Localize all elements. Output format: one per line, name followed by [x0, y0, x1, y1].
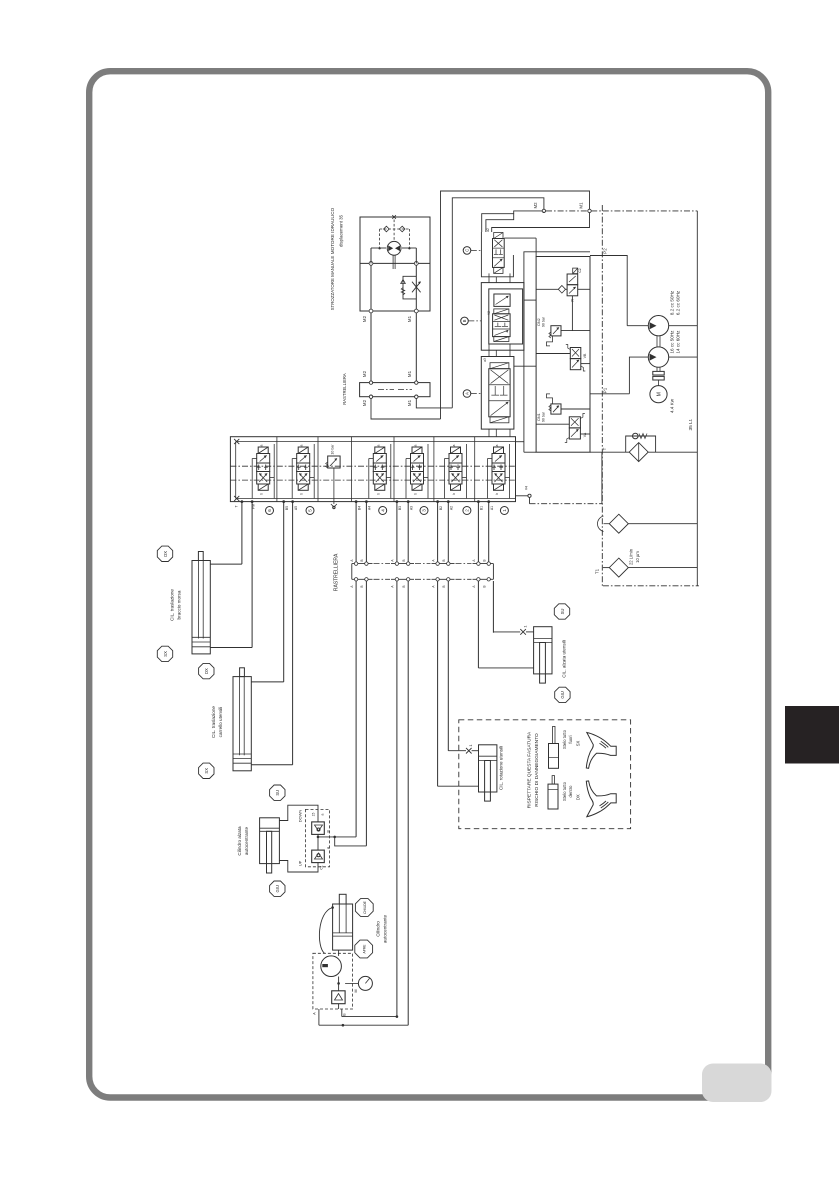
wire B5 — [292, 502, 294, 765]
circled C — [463, 247, 471, 255]
svg-text:35 Lt.: 35 Lt. — [688, 418, 694, 430]
svg-text:a: a — [495, 444, 499, 446]
svg-text:1: 1 — [502, 509, 507, 512]
relief valve DN2 — [551, 326, 561, 336]
svg-text:A1: A1 — [490, 506, 494, 510]
circled B — [461, 317, 469, 325]
claw SX — [586, 733, 616, 769]
wire A5 — [283, 502, 285, 682]
svg-text:a: a — [414, 444, 418, 446]
svg-text:10 µm: 10 µm — [635, 551, 640, 563]
svg-text:displacement 35: displacement 35 — [339, 214, 344, 247]
T riser — [601, 452, 603, 504]
svg-text:A: A — [465, 392, 470, 395]
wire v3a — [355, 502, 357, 562]
cylinder autocentrante — [333, 904, 353, 950]
wire rotazione bottom port — [438, 785, 479, 787]
section B enclosure — [481, 283, 524, 351]
svg-text:Stelo tutto: Stelo tutto — [562, 729, 567, 749]
bank gallery P dash-dot — [230, 465, 515, 467]
svg-text:B: B — [402, 585, 406, 587]
upper rastrelliera connector — [360, 383, 430, 397]
wire section C to block — [504, 237, 536, 239]
svg-text:autocentrante: autocentrante — [244, 827, 249, 856]
bank to manifold top link — [516, 441, 524, 443]
svg-text:M: M — [354, 990, 358, 993]
svg-text:DX: DX — [576, 794, 581, 800]
svg-text:8.2 cc 50Hz: 8.2 cc 50Hz — [670, 290, 675, 315]
svg-text:6: 6 — [267, 509, 272, 512]
svg-text:dentro: dentro — [568, 785, 573, 798]
svg-text:B: B — [442, 585, 446, 587]
wire c5 top port — [526, 631, 534, 633]
valve C — [494, 233, 503, 239]
curved pipe to rotary block — [319, 908, 332, 954]
cylinder rotazione utensili — [479, 745, 497, 792]
solenoid valve bank valve 3 (bank) — [369, 444, 391, 499]
svg-text:M1: M1 — [578, 202, 583, 209]
wire c1 top port — [210, 563, 242, 565]
strip contacts — [354, 562, 357, 565]
svg-text:SU: SU — [560, 609, 565, 615]
solenoid valve bank valve 5 (bank) — [445, 444, 467, 499]
wire v4b — [407, 502, 409, 562]
octagon GIU c5 — [555, 687, 570, 702]
svg-text:T1: T1 — [595, 568, 600, 574]
svg-text:Y2: Y2 — [487, 311, 491, 315]
wire rotary A to d4b — [319, 1024, 408, 1026]
svg-text:B2: B2 — [439, 506, 443, 510]
svg-text:b: b — [452, 493, 456, 495]
svg-text:SX: SX — [163, 651, 168, 657]
svg-text:RASTRELLIERA: RASTRELLIERA — [334, 553, 340, 591]
svg-text:Cilindro: Cilindro — [376, 921, 381, 937]
valve B — [494, 309, 509, 314]
octagon SX c2 — [199, 763, 214, 778]
svg-text:B: B — [462, 319, 467, 322]
svg-text:a: a — [376, 444, 380, 446]
svg-text:b: b — [495, 493, 499, 495]
page border frame — [89, 71, 768, 1097]
octagon APRE — [355, 940, 373, 958]
svg-text:10 bar: 10 bar — [331, 444, 335, 455]
svg-text:M2: M2 — [362, 315, 367, 322]
svg-text:6.2 cc 60Hz: 6.2 cc 60Hz — [676, 290, 681, 315]
svg-text:CIL. traslazione: CIL. traslazione — [170, 589, 175, 621]
octagon SX c1 — [157, 646, 172, 661]
bank closed port X top — [234, 439, 239, 444]
svg-text:B3: B3 — [398, 506, 402, 510]
svg-text:a: a — [300, 444, 304, 446]
wire loop outer (M1) — [441, 191, 590, 419]
svg-text:MOTORE IDRAULICO: MOTORE IDRAULICO — [330, 207, 335, 254]
circled A — [463, 390, 471, 398]
section C outlet wires — [488, 273, 490, 282]
dash-dot M2-M1 link — [546, 210, 588, 212]
octagon SU c5 — [554, 604, 569, 619]
hydraulic motor — [387, 241, 401, 255]
wire M2 upper — [370, 263, 372, 382]
svg-text:C: C — [465, 249, 470, 252]
wire v4a — [396, 502, 398, 562]
wire c3 bottom port — [279, 861, 318, 873]
wire rotary B to d4a — [342, 1016, 397, 1018]
bank section dividers — [276, 437, 278, 502]
svg-text:STROZZATORE MANUALE: STROZZATORE MANUALE — [330, 256, 335, 311]
svg-text:4.4 Kw: 4.4 Kw — [670, 398, 675, 413]
section A outlet wires — [488, 429, 490, 437]
wire A6 — [241, 502, 243, 564]
svg-text:DX: DX — [204, 668, 209, 674]
wire cylinder to rotary — [338, 950, 340, 956]
svg-text:P1: P1 — [603, 387, 608, 393]
stelo dentro icon — [548, 784, 558, 809]
bank T outlet — [516, 495, 529, 497]
section C enclosure — [481, 232, 513, 277]
wire block to d3a — [318, 836, 356, 838]
svg-text:SU: SU — [275, 790, 280, 796]
svg-text:M2: M2 — [533, 202, 538, 209]
svg-text:A2: A2 — [450, 506, 454, 510]
wire d3a — [355, 581, 357, 837]
octagon DX c1 — [157, 546, 172, 561]
wire P2 — [590, 256, 627, 316]
svg-text:B: B — [482, 585, 486, 587]
block internal wires — [317, 834, 319, 850]
section B outlet wires — [488, 344, 490, 357]
solenoid valve bank valve 2 (bank) — [292, 444, 314, 499]
solenoid valve bank valve 4 (bank) — [406, 444, 428, 499]
svg-text:3: 3 — [422, 509, 427, 512]
wire section A to block — [514, 365, 536, 367]
octagon GIU c3 — [270, 881, 285, 896]
svg-text:15: 15 — [312, 813, 316, 817]
svg-text:M2: M2 — [362, 370, 367, 377]
svg-text:SX: SX — [204, 768, 209, 774]
svg-text:C2: C2 — [578, 268, 582, 272]
suction strainer — [609, 514, 628, 533]
svg-text:C1: C1 — [320, 865, 324, 869]
cylinder alzata utensili — [534, 627, 552, 674]
wire v3b — [365, 502, 367, 562]
svg-text:b: b — [300, 493, 304, 495]
wire v5b — [447, 502, 449, 562]
svg-text:CIL. rotazione utensili: CIL. rotazione utensili — [499, 746, 504, 790]
electric motor M — [650, 386, 667, 403]
node M2 — [542, 209, 545, 212]
wire M1 node into section C — [492, 213, 590, 232]
svg-text:M2: M2 — [362, 399, 367, 406]
svg-text:CIL. traslazione: CIL. traslazione — [211, 706, 216, 738]
svg-text:b: b — [414, 493, 418, 495]
octagon SU c3 — [270, 785, 285, 800]
pilot diamond — [558, 286, 565, 294]
svg-text:4: 4 — [380, 509, 385, 512]
wire M2 to manifold — [371, 398, 441, 419]
rastrelliera strip — [352, 563, 494, 565]
svg-text:a2: a2 — [486, 228, 490, 232]
tank bottom dash-dot — [603, 585, 699, 587]
manifold block — [536, 257, 590, 453]
wire parallel left — [524, 252, 590, 452]
valve bank body — [230, 437, 515, 502]
vent symbol below bank — [333, 506, 335, 508]
svg-text:A4: A4 — [368, 506, 372, 510]
svg-text:2: 2 — [465, 509, 470, 512]
rotary actuator — [321, 956, 342, 977]
svg-text:M1: M1 — [407, 370, 412, 377]
wire v6b — [488, 502, 490, 562]
section A enclosure — [481, 357, 514, 430]
svg-text:M1: M1 — [407, 399, 412, 406]
svg-text:A3: A3 — [409, 506, 413, 510]
svg-text:90 bar: 90 bar — [542, 411, 546, 422]
dash-dot M1 to tank wall — [591, 210, 697, 212]
svg-text:B4: B4 — [357, 506, 361, 510]
valve B pilot element — [494, 294, 510, 306]
rotary port stubs — [318, 1009, 320, 1025]
wire c3 top port — [279, 805, 318, 822]
svg-text:b: b — [376, 493, 380, 495]
gray page tab — [702, 1064, 772, 1103]
dash-dot rail P2/P1/T — [601, 205, 603, 586]
octagon DX c2 — [199, 663, 214, 678]
svg-text:RASTRELLIERA: RASTRELLIERA — [342, 373, 347, 405]
svg-text:B5: B5 — [285, 506, 289, 510]
valve VA — [569, 417, 580, 428]
bank bottom port nodes — [241, 500, 244, 503]
svg-text:a: a — [260, 444, 264, 446]
wire block to d3b — [335, 837, 367, 846]
svg-text:DX: DX — [163, 551, 168, 557]
pilot check DOWN — [312, 822, 325, 835]
svg-text:b: b — [260, 493, 264, 495]
svg-text:M1: M1 — [407, 315, 412, 322]
svg-text:90 bar: 90 bar — [542, 316, 546, 327]
svg-text:a: a — [452, 444, 456, 446]
svg-text:a3: a3 — [483, 358, 487, 362]
restrictor X1 c5 — [520, 629, 526, 635]
cylinder carrello utensili — [233, 677, 251, 771]
wire d5a — [437, 581, 439, 786]
wire d4b — [407, 581, 409, 1025]
relief valve DN1 — [551, 404, 561, 414]
wire d5b — [447, 581, 449, 751]
svg-text:22 L/min: 22 L/min — [629, 548, 634, 565]
svg-text:DN1: DN1 — [537, 413, 541, 420]
check valve rotary — [332, 991, 345, 1004]
wire B6 — [251, 502, 253, 648]
svg-text:5: 5 — [308, 509, 313, 512]
svg-text:A5: A5 — [294, 506, 298, 510]
rotary internal wires — [338, 977, 340, 991]
return line through filter — [524, 451, 536, 453]
bank relief valve 10 bar — [328, 456, 340, 468]
filter bypass check — [626, 436, 656, 452]
svg-text:VB: VB — [583, 353, 587, 358]
svg-text:RISPETTARE QUESTA FASATURA: RISPETTARE QUESTA FASATURA — [527, 731, 533, 808]
return filter — [629, 443, 648, 462]
restrictor X1 rotazione — [466, 748, 472, 754]
svg-text:DN2: DN2 — [537, 318, 541, 325]
section B inner box — [489, 289, 523, 344]
wire c2 bottom port — [251, 764, 292, 766]
svg-text:B: B — [402, 559, 406, 561]
coupling — [653, 371, 664, 375]
svg-text:DOWN: DOWN — [298, 810, 303, 823]
svg-text:a: a — [321, 813, 325, 815]
valve VB — [570, 348, 581, 359]
svg-text:braccio morsa: braccio morsa — [177, 590, 182, 619]
wire d4a — [396, 581, 398, 1017]
svg-text:GIU: GIU — [275, 885, 280, 892]
updown valve block (dashed) — [306, 809, 330, 866]
svg-text:APRE: APRE — [363, 944, 367, 954]
wire M2 node into section C — [543, 212, 545, 213]
bank closed port X bottom — [234, 496, 239, 501]
tank right wall — [696, 211, 698, 586]
svg-text:fuori: fuori — [568, 735, 573, 743]
circled numbers — [266, 507, 274, 515]
wire d6a — [477, 581, 479, 668]
wire c1 bottom port — [210, 647, 252, 649]
svg-text:B: B — [360, 559, 364, 561]
svg-text:B: B — [442, 559, 446, 561]
motor block enclosure — [360, 217, 430, 311]
svg-text:RISCHIO DI DANNEGGIAMENTO: RISCHIO DI DANNEGGIAMENTO — [534, 733, 540, 807]
svg-text:T: T — [235, 505, 239, 507]
valve A — [490, 363, 509, 369]
svg-text:T: T — [602, 447, 607, 450]
octagon CHIUDE — [355, 899, 373, 917]
wire c5 bottom port — [478, 667, 533, 669]
svg-text:carrello utensili: carrello utensili — [218, 707, 223, 738]
black side tab — [785, 706, 839, 764]
svg-text:GIU: GIU — [560, 691, 565, 698]
warning dashed box — [459, 720, 631, 829]
svg-text:CIL. alzata utensili: CIL. alzata utensili — [562, 640, 567, 678]
wire d6b — [492, 581, 494, 633]
wire M1 upper — [415, 263, 417, 382]
svg-text:16 cc 50Hz: 16 cc 50Hz — [670, 330, 675, 354]
svg-text:CHIUDE: CHIUDE — [363, 900, 367, 913]
svg-text:autocentrante: autocentrante — [383, 915, 388, 944]
pilot check UP — [312, 850, 325, 863]
box bottom ports — [369, 309, 373, 313]
filter T1 — [609, 558, 628, 577]
cylinder braccio morsa — [192, 561, 210, 654]
svg-text:SX: SX — [576, 741, 581, 747]
svg-text:Cilindro alzata: Cilindro alzata — [237, 826, 242, 856]
svg-text:B: B — [360, 585, 364, 587]
wire section B to block — [524, 299, 536, 301]
rotary block (dashed) — [313, 953, 353, 1009]
pressure gauge — [358, 976, 372, 990]
svg-text:B: B — [482, 559, 486, 561]
manual throttle valve — [403, 276, 416, 299]
svg-text:VA: VA — [583, 432, 587, 437]
pump shaft — [656, 336, 658, 347]
solenoid valve bank valve 6 (bank) — [488, 444, 510, 499]
bank gallery T dash-dot — [230, 479, 515, 481]
svg-text:P2: P2 — [603, 248, 608, 254]
motor drain check valves (dashed) — [380, 228, 410, 230]
svg-text:Stelo tutto: Stelo tutto — [562, 781, 567, 801]
node M1 — [588, 209, 591, 212]
wire c2 top port — [251, 681, 283, 683]
wire P1 — [590, 393, 629, 395]
pump P2 (16cc) — [648, 347, 668, 367]
svg-text:B1: B1 — [480, 506, 484, 510]
unloading solenoid valve C2 — [567, 274, 578, 285]
cylinder alzata autocentrante — [260, 818, 280, 864]
wire rotazione top port — [472, 750, 479, 752]
wire loop inner (M2) — [452, 198, 544, 408]
wire v5a — [437, 502, 439, 562]
svg-text:14 cc 60Hz: 14 cc 60Hz — [676, 330, 681, 354]
solenoid valve bank valve 1 (bank) — [252, 444, 274, 499]
wire M1 to manifold — [416, 398, 452, 408]
svg-text:#4: #4 — [525, 486, 529, 490]
claw DX — [586, 781, 616, 817]
wire d3b — [365, 581, 367, 846]
wire v6a — [477, 502, 479, 562]
svg-text:UP: UP — [298, 860, 303, 866]
svg-text:M: M — [657, 392, 663, 396]
stelo fuori icon — [549, 744, 559, 769]
pump P1 (8.2cc) — [627, 325, 648, 327]
